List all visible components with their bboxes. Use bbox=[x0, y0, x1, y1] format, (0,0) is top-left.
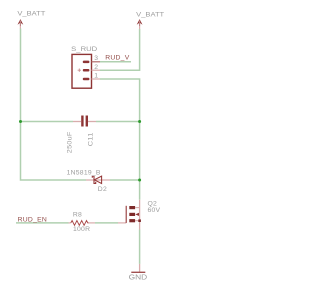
connector S_RUD bbox=[72, 54, 100, 88]
wire capacitor row left segment bbox=[21, 121, 74, 123]
junction dot right capacitor row bbox=[138, 120, 141, 123]
svg-text:RUD_V: RUD_V bbox=[105, 55, 130, 62]
junction dot left capacitor row bbox=[19, 120, 22, 123]
wire right V_BATT vertical to connector pin 2 bbox=[100, 29, 140, 70]
junction dot right diode row bbox=[138, 179, 141, 182]
svg-text:S_RUD: S_RUD bbox=[71, 46, 97, 53]
wire net RUD_V from pin 3 bbox=[100, 61, 131, 63]
svg-text:R8: R8 bbox=[73, 211, 82, 218]
wire transistor source down to ground bbox=[139, 230, 141, 264]
svg-text:2: 2 bbox=[94, 64, 98, 71]
svg-text:3: 3 bbox=[94, 55, 98, 62]
svg-text:100R: 100R bbox=[73, 226, 90, 233]
svg-text:RUD_EN: RUD_EN bbox=[18, 216, 47, 223]
svg-text:C11: C11 bbox=[87, 132, 94, 146]
wire net RUD_EN to resistor bbox=[16, 222, 69, 224]
wire diode row right segment bbox=[110, 179, 140, 181]
svg-text:D2: D2 bbox=[98, 186, 107, 193]
supply symbol V_BATT (left) bbox=[17, 11, 45, 29]
transistor Q2 n-mosfet bbox=[118, 200, 141, 230]
resistor R8 bbox=[69, 221, 96, 226]
wire resistor to transistor gate bbox=[95, 222, 118, 224]
svg-text:1: 1 bbox=[94, 72, 98, 79]
svg-text:1N5819_B: 1N5819_B bbox=[67, 170, 101, 177]
supply symbol V_BATT (right) bbox=[136, 12, 164, 30]
svg-text:V_BATT: V_BATT bbox=[17, 11, 45, 18]
ground symbol GND bbox=[129, 264, 148, 282]
svg-text:250uF: 250uF bbox=[66, 131, 73, 153]
capacitor C11 bbox=[73, 116, 96, 127]
diode D2 (schottky) bbox=[86, 176, 110, 183]
svg-text:V_BATT: V_BATT bbox=[136, 12, 164, 19]
wire capacitor row right segment bbox=[96, 121, 140, 123]
svg-text:GND: GND bbox=[129, 273, 148, 282]
svg-text:60V: 60V bbox=[148, 207, 161, 214]
wire connector pin 1 down to transistor drain bbox=[100, 79, 140, 200]
wire left V_BATT vertical down to diode row bbox=[21, 29, 87, 181]
